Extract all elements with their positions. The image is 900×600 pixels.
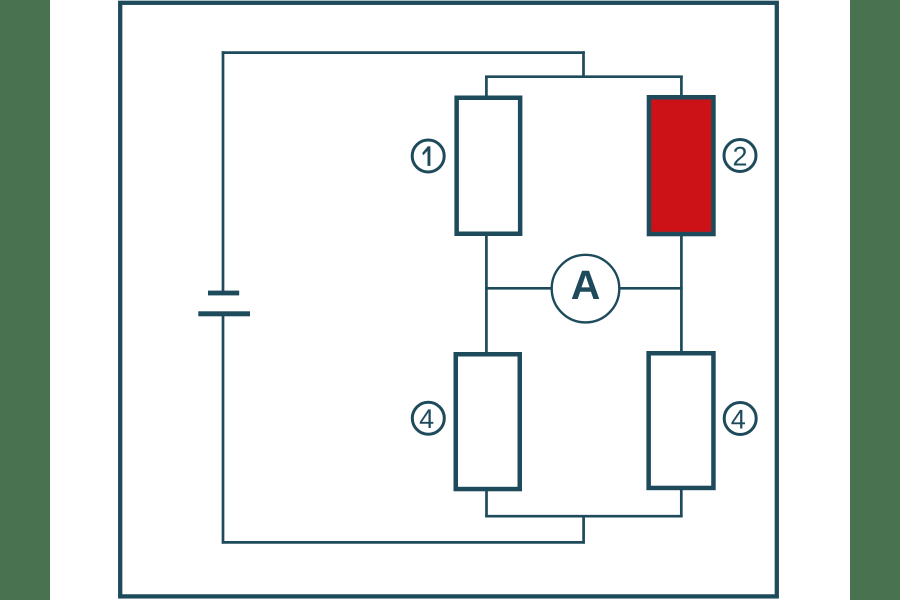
svg-text:4: 4 (419, 404, 434, 434)
battery (198, 291, 250, 317)
wire: battery negative lead (vertical, left) (222, 316, 225, 544)
label 2 (circled) (724, 140, 756, 172)
wire: resistor 4 left bottom lead (485, 489, 488, 517)
svg-text:A: A (571, 262, 601, 308)
label 1 (circled) (412, 140, 444, 172)
wire: ammeter right lead (620, 287, 683, 290)
resistor 2 (top right, red) (649, 97, 714, 234)
resistor 4 (bottom left, white) (456, 354, 520, 489)
wire: ammeter left lead (485, 287, 552, 290)
wire: battery positive lead (vertical, left) (222, 51, 225, 291)
resistor 1 (top left, white) (457, 98, 521, 234)
wire: right mid vertical (resistor 2 to resistor 4 right) (680, 234, 683, 353)
svg-text:2: 2 (732, 141, 747, 171)
wire: upper bridge horizontal (485, 75, 683, 78)
wire: resistor 1 top lead (485, 76, 488, 98)
wire: resistor 4 right bottom lead (680, 488, 683, 517)
wire: bottom horizontal to battery (222, 541, 585, 544)
resistor 4 (bottom right, white) (649, 353, 714, 488)
wire: resistor 2 top lead (680, 76, 683, 97)
svg-text:4: 4 (731, 404, 746, 434)
ammeter A (552, 255, 620, 323)
wire: top horizontal from battery to mid step (222, 51, 585, 54)
wire: lower bridge horizontal (485, 515, 682, 518)
label 4 (circled, right) (724, 403, 756, 435)
label 4 (circled, left) (412, 402, 444, 434)
wire: bottom step vertical (582, 515, 585, 544)
wire: left mid vertical (resistor 1 to resistor 4 left) (485, 234, 488, 354)
wire: top step vertical (582, 51, 585, 78)
